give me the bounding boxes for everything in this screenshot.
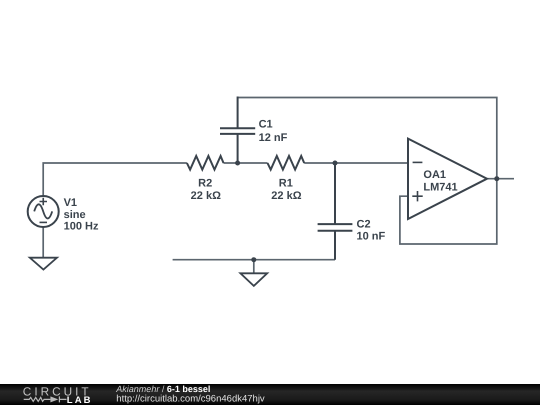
wire: ground stub (bottom center) (253, 260, 255, 273)
op-amp OA1 triangle (408, 139, 487, 219)
svg-text:100 Hz: 100 Hz (64, 221, 99, 233)
capacitor C1 plates (220, 128, 255, 134)
svg-text:R2: R2 (198, 177, 212, 189)
wire: op-amp output stub (487, 178, 514, 180)
capacitor C2 leads (334, 163, 336, 260)
capacitor C1 leads (237, 97, 239, 164)
voltage source V1 (28, 196, 59, 227)
node: output junction (494, 176, 499, 181)
wire: top feedback from C1 to output (238, 98, 497, 179)
svg-text:22 kΩ: 22 kΩ (271, 190, 301, 202)
wire: V1 to ground (42, 227, 44, 257)
footer text (115, 384, 265, 405)
svg-text:V1: V1 (64, 197, 77, 209)
svg-text:LM741: LM741 (423, 181, 457, 193)
wire: R1 to op-amp minus input (304, 162, 408, 164)
svg-text:22 kΩ: 22 kΩ (191, 190, 221, 202)
wire: bottom ground rail (173, 259, 335, 261)
node: R1/C2 junction (333, 161, 338, 166)
resistor R2 (187, 156, 224, 170)
svg-text:Akianmehr / 6-1 bessel: Akianmehr / 6-1 bessel (115, 384, 210, 394)
svg-text:sine: sine (64, 209, 86, 221)
op-amp minus sign (413, 161, 423, 163)
capacitor C2 plates (318, 224, 353, 231)
svg-text:C2: C2 (357, 218, 371, 230)
ground (under V1) (30, 258, 57, 270)
svg-text:12 nF: 12 nF (259, 132, 288, 144)
svg-text:C1: C1 (259, 119, 273, 131)
svg-text:R1: R1 (279, 177, 293, 189)
resistor R1 (268, 156, 305, 170)
wire: V1 top to R2 (43, 163, 187, 196)
svg-text:10 nF: 10 nF (357, 231, 386, 243)
ground (bottom center) (240, 273, 267, 286)
node: R2/C1 junction (235, 161, 240, 166)
node: ground junction (251, 257, 256, 262)
svg-text:LAB: LAB (67, 395, 93, 405)
wire: R2 to R1 (224, 162, 268, 164)
svg-text:OA1: OA1 (423, 169, 446, 181)
op-amp plus sign (412, 191, 422, 201)
svg-text:http://circuitlab.com/c96n46dk: http://circuitlab.com/c96n46dk47hjv (116, 394, 265, 405)
CircuitLab logo (23, 384, 93, 405)
wire: feedback loop to plus input (400, 179, 497, 244)
